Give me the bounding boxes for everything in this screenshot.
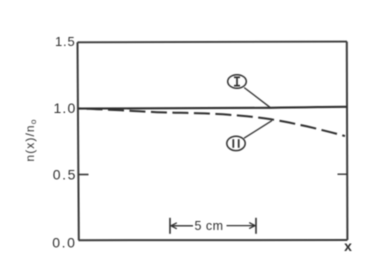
plot frame right border xyxy=(346,42,349,240)
glyph I inside ellipse xyxy=(234,77,240,85)
label ellipse I xyxy=(228,75,247,89)
svg-text:1.5: 1.5 xyxy=(55,34,75,49)
right tick at 0.5 xyxy=(338,173,348,175)
scale bar right arrow xyxy=(227,223,256,229)
scale bar left end bar xyxy=(169,218,171,234)
svg-text:n(x)/no: n(x)/no xyxy=(23,118,38,161)
svg-text:0.5: 0.5 xyxy=(53,167,77,183)
label ellipse II xyxy=(227,136,245,150)
y tick at 0.5 xyxy=(78,174,88,176)
glyph II inside ellipse xyxy=(233,139,238,148)
svg-text:5 cm: 5 cm xyxy=(194,219,223,233)
plot frame left border (y axis) xyxy=(78,42,79,240)
scale bar right end bar xyxy=(255,218,257,234)
y tick at 1.0 xyxy=(78,107,89,109)
leader line from I to solid curve xyxy=(244,88,270,108)
plot frame top border xyxy=(78,41,348,44)
plot frame bottom border (x axis) xyxy=(79,239,348,241)
curve I solid line at n=1 xyxy=(78,107,347,109)
scale bar left arrow xyxy=(171,223,193,229)
svg-text:x: x xyxy=(344,238,352,254)
curve II dashed declining curve xyxy=(79,108,345,136)
svg-text:0.0: 0.0 xyxy=(52,235,76,251)
svg-text:1.0: 1.0 xyxy=(53,100,76,116)
leader line from II to dashed curve xyxy=(244,121,272,139)
